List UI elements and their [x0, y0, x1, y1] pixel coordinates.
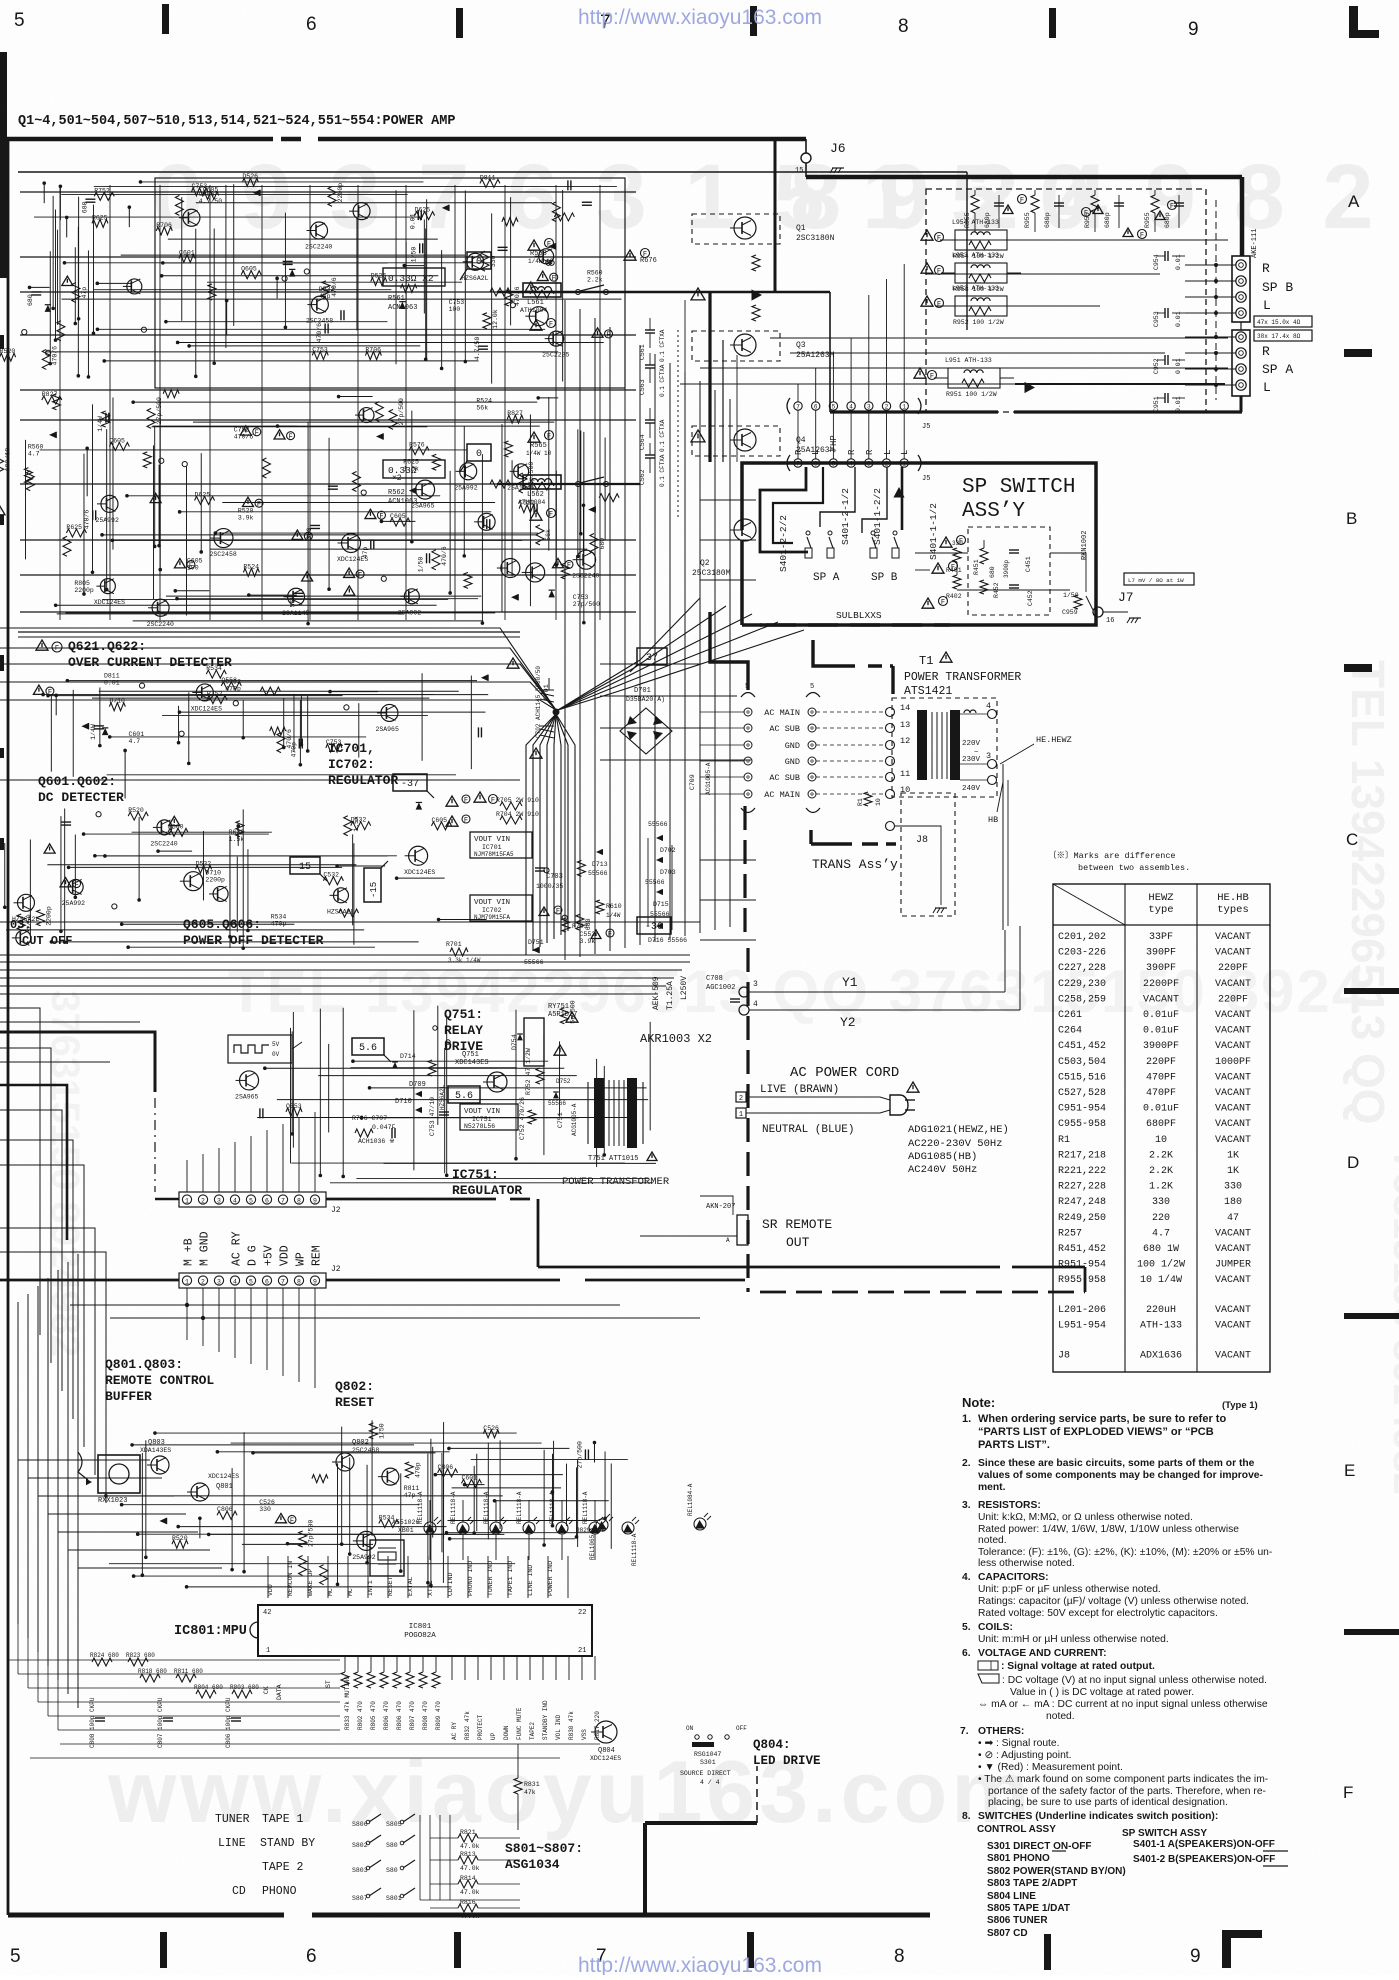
frame right lower step — [643, 1823, 647, 1915]
regulator IC751 box — [460, 1104, 518, 1130]
resistor R1 — [864, 792, 872, 806]
reset circuit parts — [336, 1453, 354, 1471]
top-right corner mark — [1349, 6, 1358, 38]
IC801 MPU body — [258, 1605, 592, 1656]
wire bus above SP switch — [708, 292, 711, 462]
speaker network caps C951-C954 — [1164, 251, 1166, 261]
relay drive texture — [240, 1071, 259, 1090]
speaker network feed wires — [1185, 264, 1236, 266]
switch contacts SP A — [806, 531, 810, 535]
speaker network assembly box — [926, 189, 1206, 412]
right edge tick 4 — [1344, 1313, 1399, 1319]
relay L561 upper — [528, 240, 540, 250]
square wave box — [228, 1035, 292, 1063]
left bus elbows to buffer — [18, 1459, 150, 1461]
top ruler tick 6-7 — [456, 8, 463, 38]
resistor R402 — [932, 563, 944, 573]
heavy bracket below transformer — [809, 830, 812, 844]
capacitor C702 below node — [540, 726, 554, 738]
transformer dashed box — [892, 698, 997, 797]
flag -15 — [364, 868, 381, 902]
right edge tick 1 — [1344, 349, 1372, 357]
left bus horizontals — [0, 1021, 140, 1023]
SP SWITCH ASSY enclosure — [742, 463, 1096, 625]
wires J2 row2 down — [186, 1288, 188, 1340]
regulator passives (texture) — [439, 919, 487, 921]
transistor Q3 2SA1263M — [734, 334, 756, 356]
frame left edge — [7, 139, 10, 1915]
flag 0 upper — [467, 252, 491, 269]
bottom bus horizontals — [0, 961, 690, 963]
verticals amp to J5 row2 — [684, 300, 686, 438]
flag -30 — [637, 917, 671, 934]
regulator IC702 box — [470, 895, 532, 921]
flag 15 — [290, 857, 320, 874]
Y wires bend up — [1004, 930, 1006, 992]
spec box J7 — [1124, 573, 1194, 585]
transistor Q803 — [151, 1456, 169, 1474]
power amp stage rows (texture) — [282, 276, 287, 281]
mains plug — [890, 1095, 908, 1115]
capacitors C806-C808 — [95, 1717, 105, 1719]
flag 0 lower — [467, 444, 491, 461]
emitter resistor block 0.33 ohm lower — [383, 460, 445, 478]
ground in J8 box — [935, 907, 947, 909]
bottom-right corner mark — [1222, 1930, 1231, 1968]
flag -37 — [393, 774, 427, 791]
vertical bus right column stubs — [700, 499, 756, 501]
speaker network RC row R955-R958 — [971, 195, 979, 213]
connector J6 — [801, 153, 811, 163]
terminal 1 box — [736, 1108, 746, 1118]
relay L562 lower — [528, 432, 540, 442]
connector J5 speaker row — [787, 455, 790, 471]
crystal oscillator — [370, 1540, 404, 1576]
difference table — [1053, 884, 1270, 1372]
page divider heavy dashed vertical — [743, 806, 746, 933]
long wires to switch matrix — [60, 1743, 600, 1745]
speaker spec boxes — [1254, 316, 1312, 327]
heavy wire to transformer connector mid — [813, 640, 855, 666]
scan edge bar top-left — [0, 52, 7, 278]
wires J5 between rows — [797, 410, 799, 459]
wire from pin3 down — [1002, 764, 1004, 930]
top ruler tick 8-9 — [1049, 8, 1056, 38]
J8 dashed box — [901, 793, 955, 916]
resistor rows below IC801 — [344, 1656, 346, 1672]
frame bottom edge — [8, 1913, 284, 1918]
diode D713 — [596, 849, 602, 855]
resistor R610 — [596, 900, 604, 914]
scan noise overlay — [0, 0, 1, 1]
connector J5 headphone row — [787, 398, 790, 414]
wire SP switch to network — [915, 552, 968, 554]
switch matrix vertical wires — [419, 1815, 421, 1900]
over current detecter parts (texture) — [102, 728, 109, 735]
resistor R703 — [539, 907, 549, 916]
wires to SR remote — [700, 1196, 733, 1215]
flag 37 — [637, 648, 667, 665]
warn marks right column — [530, 320, 542, 330]
transistor Q2 2SC3180M — [734, 519, 756, 541]
remote buffer texture — [217, 1511, 237, 1519]
heavy wires inside SP switch — [760, 467, 808, 552]
transistor Q804 — [595, 1721, 617, 1743]
heavy bus from left edge upper — [0, 1032, 155, 1092]
transistor Q1 2SC3180N — [734, 217, 756, 239]
section label over current detecter — [36, 640, 48, 650]
SR remote out jack — [737, 1215, 748, 1245]
bus wires bottom-left — [8, 1659, 340, 1661]
transformer connector brackets — [741, 693, 755, 698]
left bus wires — [0, 1008, 40, 1335]
wire convergence node — [553, 709, 560, 716]
transistor Q4 2SA1263M — [734, 429, 756, 451]
diode D714 — [392, 1062, 398, 1068]
top ruler tick 5-6 — [162, 4, 169, 34]
bus lines below J2 — [70, 1304, 620, 1306]
remote sensor RXX1023 — [78, 1452, 88, 1480]
speaker wire with arrow — [1015, 383, 1225, 385]
connector J2 row 1 — [179, 1192, 326, 1207]
speaker switch contacts upper — [576, 290, 581, 295]
terminal 2 box — [736, 1092, 746, 1102]
capacitor C701 above node — [507, 658, 519, 668]
resistor R401 — [940, 537, 952, 547]
frame top edge — [0, 137, 273, 142]
right edge tick 5 — [1344, 1629, 1399, 1635]
heavy wire into J2 row2 — [0, 1279, 179, 1282]
switch contacts SP B — [871, 531, 875, 535]
wires J5 row1 up to network — [797, 384, 799, 402]
signal wire lower channel — [497, 483, 640, 485]
bottom ruler ticks — [160, 1932, 167, 1968]
flag 5.6 a — [352, 1038, 384, 1055]
regulator IC701 box — [470, 832, 532, 858]
horizontal stubs right of star — [600, 663, 700, 665]
power cord wires — [746, 1097, 890, 1100]
right edge tick 3 — [1344, 988, 1399, 994]
heavy wire J2 row1 to transformer area — [326, 1198, 496, 1201]
transformer lower connector pin — [886, 822, 895, 831]
left vertical bus lines — [7, 1310, 9, 1610]
wire J6 drop — [774, 139, 777, 292]
resistor network left of IC801 — [92, 1658, 112, 1666]
heavy bus from left edge mid — [0, 1085, 67, 1240]
flag 5.6 b — [448, 1086, 480, 1103]
transformer core — [917, 710, 927, 780]
top ruler tick 7-8 — [750, 6, 757, 36]
dashed chain right edge of network — [1215, 200, 1217, 400]
transformer pin rows — [744, 708, 752, 716]
speaker terminal strip SP B — [1232, 256, 1250, 322]
power amp long signal rows — [20, 191, 636, 193]
power amp inner boundary — [18, 171, 967, 173]
right edge tick 2 — [1344, 664, 1372, 672]
heavy wire into J2 row1 — [155, 1198, 179, 1201]
network R451 C451 dashed box — [968, 527, 1050, 615]
capacitor column C561-C564 — [645, 329, 655, 331]
signal wire to speakers with arrow — [497, 291, 830, 293]
wires above IC801 — [267, 1556, 269, 1598]
resistor R701 and diode D751 row — [450, 948, 468, 956]
speaker terminal strip SP A — [1232, 330, 1250, 396]
speaker switch contacts lower — [576, 482, 581, 487]
capacitor C703 — [535, 867, 545, 869]
transistor Q801 — [191, 1483, 209, 1501]
diode D752 — [553, 1092, 559, 1098]
power amp wiring mesh — [62, 298, 622, 300]
wire heavy bus to speaker network — [806, 175, 1242, 180]
separator lines detector area — [18, 636, 520, 638]
LED D803 D804 — [596, 1519, 608, 1531]
emitter resistor block 0.33 ohm upper — [383, 268, 445, 286]
wires J2 row1 up — [186, 1160, 188, 1192]
scan specks left edge — [0, 335, 4, 349]
heavy wire to transformer connector left — [710, 612, 748, 690]
long verticals from amp to lower section — [564, 300, 566, 960]
transformer T751 core — [594, 1078, 604, 1148]
resistor R831 — [514, 1778, 522, 1794]
LED indicator row — [424, 1522, 436, 1534]
dc detecter parts (texture) — [351, 822, 371, 830]
